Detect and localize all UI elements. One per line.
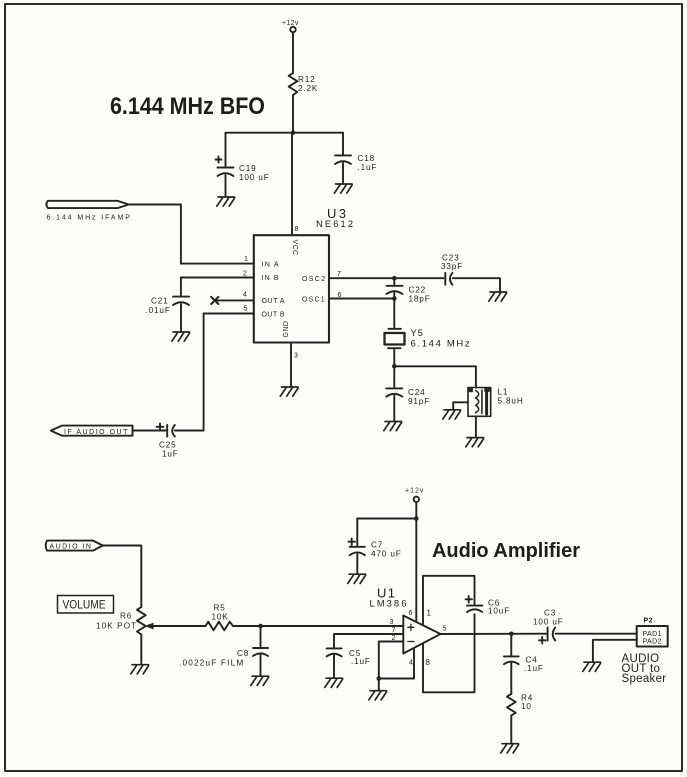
svg-text:OUT B: OUT B (262, 311, 286, 318)
connector P2 (637, 618, 668, 647)
wire C23 to ground (453, 278, 500, 291)
svg-text:91pF: 91pF (408, 397, 430, 406)
svg-text:+12v: +12v (405, 488, 424, 495)
wire U3 pin 4 (OUT A) no-connect X (211, 292, 254, 305)
capacitor C23 (441, 254, 463, 285)
svg-text:4: 4 (243, 292, 247, 299)
op-amp U3 NE612 mixer (254, 206, 353, 343)
resistor R12 (289, 73, 319, 95)
svg-text:Speaker: Speaker (622, 673, 667, 685)
title Audio Amplifier (432, 539, 580, 562)
wire pin2 corner to C21 (180, 278, 182, 297)
capacitor C21 (146, 297, 190, 332)
ground P2 PAD2 (583, 662, 601, 671)
input connector 6.144 MHz IF AMP (46, 201, 130, 222)
wire +12v to R12 (292, 32, 294, 73)
wire Y5 node to L1 (394, 366, 476, 387)
svg-text:C8: C8 (237, 649, 249, 658)
svg-text:8: 8 (295, 226, 299, 233)
wire U1 output pin 5 (441, 626, 548, 635)
svg-text:IN A: IN A (262, 261, 280, 268)
wire OSC1 pin 6 (329, 292, 394, 299)
wire rail to U3 pin 8 (292, 133, 299, 236)
wire +12v down to U1 pin 6 (409, 502, 417, 622)
svg-text:7: 7 (337, 271, 341, 278)
capacitor C5 (327, 627, 404, 678)
capacitor C3 (533, 609, 564, 644)
wire wiper to R5 (152, 625, 206, 627)
svg-text:NE612: NE612 (316, 219, 353, 230)
svg-text:2.2K: 2.2K (298, 84, 318, 93)
capacitor C8 (179, 626, 268, 676)
svg-text:2: 2 (243, 271, 247, 278)
ground C23 (489, 292, 507, 301)
ground C24 (384, 422, 402, 431)
svg-text:1: 1 (427, 609, 432, 618)
power +12v terminal (amp) (405, 488, 424, 502)
svg-text:R6: R6 (120, 612, 132, 621)
junction output/C4 (509, 632, 514, 637)
label VOLUME (58, 596, 114, 614)
svg-text:Y5: Y5 (411, 328, 424, 339)
svg-text:.1uF: .1uF (351, 657, 371, 666)
svg-text:VOLUME: VOLUME (63, 600, 106, 612)
svg-text:6.144 MHz BFO: 6.144 MHz BFO (110, 93, 265, 120)
inductor L1 (468, 388, 524, 417)
svg-text:LM386: LM386 (370, 599, 407, 610)
wire R5 to U1 pin 3 (233, 619, 403, 626)
input connector AUDIO IN (46, 541, 103, 551)
svg-text:+12v: +12v (282, 20, 299, 27)
svg-text:33pF: 33pF (441, 262, 463, 271)
svg-text:5: 5 (244, 306, 248, 313)
svg-text:1uF: 1uF (162, 450, 179, 459)
svg-text:3: 3 (294, 353, 298, 360)
wire R12 to supply rail (292, 95, 294, 133)
ground C8 (251, 676, 269, 685)
svg-text:5: 5 (443, 626, 447, 633)
ground C19 (217, 197, 235, 206)
wire OSC2 pin 7 to C23 (329, 271, 444, 278)
svg-text:OUT A: OUT A (262, 298, 286, 305)
svg-text:4: 4 (409, 660, 413, 667)
svg-text:R5: R5 (214, 604, 226, 613)
ground C18 (334, 184, 352, 193)
svg-text:C19: C19 (239, 164, 257, 173)
capacitor C18 (335, 133, 377, 184)
svg-text:C22: C22 (409, 286, 427, 295)
wire L1 bottom to ground (475, 416, 477, 437)
svg-text:IF AUDIO OUT: IF AUDIO OUT (64, 429, 128, 436)
svg-text:C3: C3 (544, 609, 556, 618)
svg-text:8: 8 (426, 658, 431, 667)
resistor R4 (507, 694, 533, 716)
capacitor C22 (387, 278, 431, 303)
svg-text:Audio Amplifier: Audio Amplifier (432, 539, 580, 562)
ground R6 (131, 665, 149, 674)
svg-text:6.144 MHz: 6.144 MHz (411, 339, 471, 350)
ground L1 bottom (466, 438, 484, 447)
svg-text:C21: C21 (151, 297, 169, 306)
svg-text:IN B: IN B (262, 275, 280, 282)
capacitor C25 (133, 423, 179, 458)
svg-text:OSC2: OSC2 (302, 276, 326, 283)
junction OSC2/C22 (392, 276, 397, 281)
output connector IF AUDIO OUT (51, 426, 133, 436)
svg-text:10uF: 10uF (488, 607, 510, 616)
svg-text:10: 10 (521, 702, 532, 711)
wire R4 to ground (510, 716, 512, 744)
junction Y5/C24/L1 (392, 364, 397, 369)
svg-text:2: 2 (392, 635, 396, 642)
svg-text:10K: 10K (212, 613, 229, 622)
junction +12v/C7 (414, 516, 419, 521)
svg-text:PAD1: PAD1 (643, 631, 662, 638)
svg-text:1: 1 (244, 256, 248, 263)
svg-text:7: 7 (392, 627, 396, 634)
svg-text:C24: C24 (408, 388, 426, 397)
svg-text:100 uF: 100 uF (533, 618, 564, 627)
wire U3 pin 2 (IN B) (181, 271, 254, 278)
svg-text:.1uF: .1uF (524, 664, 544, 673)
capacitor C24 (386, 366, 430, 421)
wire IF AMP to pin 1 (129, 205, 181, 264)
svg-text:5.8uH: 5.8uH (498, 397, 524, 406)
wire U1 pin 2 loop to ground (379, 635, 404, 679)
svg-text:C7: C7 (371, 541, 383, 550)
ground C7 (348, 574, 366, 583)
svg-text:R12: R12 (298, 75, 316, 84)
svg-text:6: 6 (338, 292, 342, 299)
svg-text:.0022uF FILM: .0022uF FILM (179, 659, 244, 668)
potentiometer R6 10K POT (96, 607, 153, 664)
svg-text:GND: GND (283, 321, 290, 338)
svg-text:6: 6 (409, 610, 413, 617)
ground L1 tap (443, 410, 461, 419)
svg-text:C25: C25 (159, 441, 177, 450)
resistor R5 (206, 604, 234, 631)
junction pin2/pin4 ground (377, 676, 382, 681)
svg-text:3: 3 (390, 619, 394, 626)
wire U3 pin 1 (IN A) (181, 256, 254, 264)
svg-text:P2: P2 (644, 618, 653, 625)
wire L1 shield tap to ground (453, 402, 468, 409)
ground C5 (325, 678, 343, 687)
wire U1 pin 4 to ground (379, 648, 414, 679)
title 6.144 MHz BFO (110, 93, 265, 120)
junction C8 (258, 624, 263, 629)
svg-text:.1uF: .1uF (358, 163, 378, 172)
op-amp U1 LM386 gain box (423, 576, 475, 693)
ground U1 pins 2/4 (369, 691, 387, 700)
svg-text:L1: L1 (498, 388, 509, 397)
svg-text:470 uF: 470 uF (371, 550, 402, 559)
junction rail/pin8 (291, 130, 296, 135)
svg-text:PAD2: PAD2 (643, 639, 662, 646)
capacitor C7 (349, 519, 402, 574)
wire U3 pin 5 (OUT B) (204, 306, 254, 314)
svg-text:AUDIO IN: AUDIO IN (50, 544, 92, 551)
svg-text:.01uF: .01uF (146, 306, 171, 315)
svg-text:100 uF: 100 uF (239, 173, 270, 182)
op-amp U1 LM386 triangle (370, 586, 441, 654)
capacitor C6 (on gain box edge) (466, 596, 511, 615)
wire pin5 down to C25 (175, 314, 204, 431)
svg-text:6.144 MHz IFAMP: 6.144 MHz IFAMP (47, 215, 131, 222)
power +12v terminal (BFO) (282, 20, 299, 32)
svg-text:VCC: VCC (291, 240, 298, 256)
capacitor C4 (504, 634, 544, 694)
wire U3 pin 3 to ground (291, 343, 298, 387)
wire PAD2 to ground (593, 640, 637, 662)
svg-text:OSC1: OSC1 (302, 297, 325, 304)
wire AUDIO IN to R6 (103, 546, 142, 608)
svg-text:10K POT: 10K POT (96, 622, 137, 631)
crystal Y5 (385, 299, 471, 367)
ground R4 (501, 744, 519, 753)
ground U3 pin 3 (280, 387, 298, 396)
svg-text:C18: C18 (358, 154, 376, 163)
label AUDIO OUT to Speaker (622, 653, 667, 685)
wire C3 to P2 (556, 633, 637, 635)
ground C21 (172, 332, 190, 341)
wire junction to ground (378, 679, 380, 691)
capacitor C19 (216, 133, 270, 197)
wire supply rail horizontal (226, 132, 344, 134)
svg-text:18pF: 18pF (409, 295, 431, 304)
junction OSC1/C22/Y5 (392, 296, 397, 301)
wire junction to C7 (357, 518, 416, 520)
